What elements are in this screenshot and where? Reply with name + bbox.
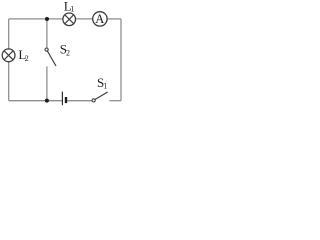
svg-text:1: 1 xyxy=(103,82,107,91)
wire top xyxy=(9,18,63,20)
wire top right of A xyxy=(107,18,121,20)
svg-text:A: A xyxy=(95,12,104,26)
switch S2 xyxy=(45,48,56,66)
wire bottom battery to S1 xyxy=(67,100,92,102)
svg-text:2: 2 xyxy=(25,54,29,63)
wire left side xyxy=(8,19,10,101)
lamp L1 xyxy=(63,13,76,26)
wire bottom right of S1 xyxy=(110,100,122,102)
wire right side xyxy=(120,19,122,101)
wire bottom left xyxy=(9,100,62,102)
svg-text:1: 1 xyxy=(70,5,74,14)
wire top right between L1 and A xyxy=(76,18,93,20)
wire S2 branch upper xyxy=(46,19,48,48)
node junction bottom xyxy=(45,99,49,103)
svg-text:2: 2 xyxy=(66,49,70,58)
lamp L2 xyxy=(2,49,15,62)
battery xyxy=(62,92,66,106)
ammeter A xyxy=(93,12,107,26)
node junction top xyxy=(45,17,49,21)
wire S2 branch lower xyxy=(46,66,48,100)
switch S1 xyxy=(92,92,108,102)
